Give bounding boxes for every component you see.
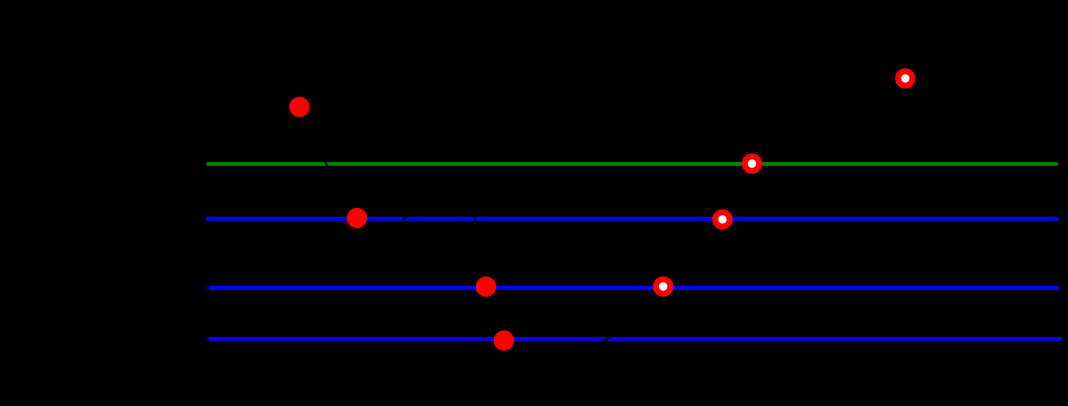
message arrow crossing N1 on green axis bbox=[324, 158, 330, 170]
label overlap nick at left end of P2 bbox=[207, 283, 209, 293]
event dot E4 (solid red, on P3) bbox=[494, 330, 514, 350]
event dot E3 (solid red, on P2) bbox=[476, 277, 496, 297]
label overlap nick at left end of P3 bbox=[207, 334, 209, 344]
arrow tip nub at right end of green axis bbox=[1057, 163, 1058, 165]
ack event A2 (red ring, on green axis) bbox=[742, 153, 762, 173]
timeline axis T (green) bbox=[207, 162, 1058, 166]
ack event A1 (red ring, top right) bbox=[895, 68, 915, 88]
message arrow crossing N3 on P1 bbox=[474, 214, 475, 225]
event dot E2 (solid red, on P1) bbox=[347, 208, 367, 228]
process line P1 (blue) bbox=[207, 217, 1058, 221]
message arrow crossing N2 on P1 bbox=[400, 214, 409, 223]
message arrow crossing N4 on P3 bbox=[601, 335, 611, 344]
event dot E1 (solid red, above axis) bbox=[289, 97, 309, 117]
ack event A3 (red ring, on P1) bbox=[712, 209, 732, 229]
process line P2 (blue) bbox=[207, 286, 1059, 290]
arrow tip step at right end of P1 bbox=[1058, 219, 1059, 221]
process line P3 (blue) bbox=[207, 337, 1063, 341]
arrow tip nub at right end of P2 bbox=[1058, 287, 1059, 289]
ack event A4 (red ring, on P2) bbox=[653, 276, 673, 296]
